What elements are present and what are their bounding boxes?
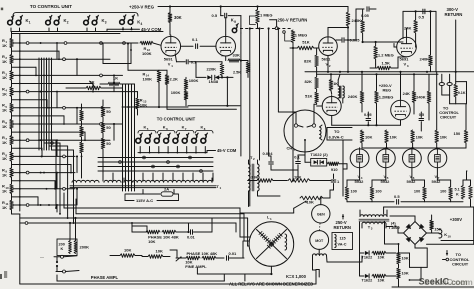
label 200K [80,245,90,250]
svg-text:10K: 10K [378,255,385,259]
label K5 [144,125,149,131]
wire det vert [271,155,305,170]
wire tap R8 [12,164,72,174]
label K7 [182,125,187,131]
resistor 100 c3 [414,187,426,202]
wire stair R5 [76,107,78,124]
relay contact mid 3 [154,133,160,152]
svg-text:200: 200 [59,243,65,247]
svg-text:150: 150 [454,131,461,136]
resistor R9 1K [2,167,13,177]
resistor R4 1K [2,86,13,96]
wire loop2 [76,199,244,231]
wire left border [12,32,20,212]
wire box top rail [12,31,164,33]
wire tap R6 [12,131,86,141]
wire tap R2 [12,66,37,76]
label 250-V RETURN (bot) [334,214,351,230]
resistor 10K grid2 [385,130,397,148]
resistor 50 b2 [80,121,84,137]
svg-text:1K: 1K [2,108,7,113]
svg-text:0.5: 0.5 [212,13,218,18]
transformer T1 core [70,186,216,188]
svg-text:0.01: 0.01 [187,234,196,239]
wire middle verticals [249,27,293,206]
transformer T2 [249,155,281,207]
wire stair R2 [76,58,78,75]
svg-text:45-V COM: 45-V COM [217,148,237,153]
svg-text:5.1: 5.1 [455,188,460,192]
resistor 1K interstage [329,74,338,94]
wire vdrop 163 [162,173,164,181]
svg-text:240K: 240K [416,95,426,100]
resistor 150 [437,104,468,148]
resistor 1.5K [370,57,407,70]
resistor 10K r2 [372,274,400,282]
junction bus1 R10 [46,188,48,190]
wires T1 down [124,178,212,194]
resistor R3 1K [2,70,13,80]
label L1 [267,215,272,221]
svg-text:10K: 10K [416,135,423,140]
tube V3b [391,72,411,120]
svg-text:+250-V REG: +250-V REG [129,5,155,10]
label +250-V REG [129,5,155,10]
resistor 82K b [305,67,319,89]
svg-text:50: 50 [106,125,111,130]
capacitor 0.5 (top) [212,7,241,19]
wire tap R9 [12,180,56,190]
resistor 50 a1 [101,100,111,117]
svg-text:250-V RETURN: 250-V RETURN [278,18,308,23]
wire bus1 line2 [41,58,43,150]
label PHASE AMPL [91,275,119,280]
diode T1622 r2 [360,274,373,282]
wire loop1 [64,193,240,231]
wire grid bus [362,147,437,149]
svg-text:100K: 100K [143,77,153,82]
resistor 100 c2 [370,187,381,202]
resistor 220K [207,62,224,78]
label ALL RELAYS [229,282,313,287]
svg-text:TO CONTROL UNIT: TO CONTROL UNIT [157,117,196,122]
resistor R8 1K [2,151,13,161]
wire R4-R5 [11,96,13,103]
wire R6-R7 [11,129,13,136]
junction chain dots [81,107,104,157]
capacitor 0.005 [336,36,360,73]
wire ch2 bottom [270,266,272,274]
wire K9 down [240,33,242,156]
wire stair R7 [56,139,58,156]
svg-text:T1622: T1622 [362,255,373,259]
svg-text:10K: 10K [307,199,314,204]
wire shield dashes1 [240,28,266,30]
svg-text:15K: 15K [434,227,441,232]
svg-text:CIRCUIT: CIRCUIT [440,115,457,120]
svg-text:200K: 200K [80,245,90,250]
wire vdrop 193 [192,173,194,181]
svg-text:PHASE 10K 48K: PHASE 10K 48K [187,251,218,256]
wire lower bus [384,207,474,241]
wire 115 box [125,194,179,201]
svg-text:0.1: 0.1 [192,37,198,42]
label TO CONTROL UNIT (mid) [157,117,196,122]
svg-text:GEN: GEN [317,213,325,217]
transformer T3 core [359,219,389,221]
svg-text:.com: .com [449,278,468,287]
svg-text:1K: 1K [2,91,7,96]
label TO CONTROL CIRCUIT (right) [439,106,459,120]
svg-text:1K: 1K [2,205,7,210]
box 115 VA-C [332,233,353,250]
svg-text:24K: 24K [404,26,411,31]
label +250-V REG (right) [379,83,392,93]
wire krow y157.5 [98,157,213,159]
svg-text:5K: 5K [90,79,95,84]
switch contact 200k b [56,265,79,273]
resistor 10K bl [110,248,142,258]
wire shield dashes2 [272,28,291,30]
svg-text:1.5K: 1.5K [382,61,391,66]
phase row2 [176,256,244,261]
wire right hook [316,270,319,285]
svg-text:1K: 1K [113,76,118,81]
resistor 5.1K a [455,186,465,200]
resistor R1 1K [2,38,13,48]
wire stair R10 [76,188,78,205]
resistor 10K v1 [397,244,409,268]
generator GEN [312,197,330,223]
wire vdrop 143 [142,173,144,181]
transformer interstage [338,74,344,103]
resistor R5 1K [2,103,13,113]
label 45-V COM (mid) [207,148,237,153]
wire bus2 line5 [134,84,136,191]
wire long top b [20,222,236,232]
tube V7 5932 [428,148,447,169]
potentiometer 1 MEG b [283,30,308,48]
relay contact mid 8 [201,133,207,152]
wire bus1 jog b [44,142,61,215]
diode pair 1N38 [196,75,233,84]
svg-text:100: 100 [414,190,420,194]
junction bus1 R5 [48,107,50,109]
labels phase row1 [148,234,195,243]
wire vdrop 103 [102,173,104,181]
switch contact (153,166.5) [152,165,155,168]
svg-text:240K: 240K [348,94,358,99]
chopper CH2 [249,222,294,267]
wire rect row1 [100,42,132,64]
diode T1622 r1 [360,251,373,259]
bracket K6 [158,131,176,134]
svg-text:10K: 10K [402,256,409,261]
diode bridge [398,222,432,245]
resistor 910 [328,162,347,172]
svg-text:30K: 30K [174,15,182,20]
wire bus2 line4 [131,84,133,191]
wire net row b [188,105,240,107]
svg-text:50: 50 [106,141,111,146]
svg-text:T1622: T1622 [389,225,401,230]
transformer T1 sec a [72,180,121,182]
resistor v3 grid [361,20,365,42]
resistor R14 100K [143,71,161,107]
wire K1-K3 feet [11,28,96,32]
coil ch2 r [285,234,287,250]
tube V3 5691 [397,36,417,68]
wire bus1 line1 [38,58,40,150]
resistor 50 a2 [101,117,111,133]
diodes T1622 (2) [305,152,328,166]
svg-text:0.5: 0.5 [394,194,400,199]
resistor R11 1K [2,200,13,210]
resistor 50 b3 [80,137,84,178]
wire vdrop 173 [172,173,174,181]
tube V2 5691 [319,28,338,68]
wire R3-R4 [11,80,13,87]
wire bus1 line3 [43,58,45,150]
label K8 [201,125,206,131]
svg-text:T1622: T1622 [362,278,373,282]
wire tap R4 [12,99,48,109]
svg-text:9.1K: 9.1K [458,91,466,95]
relay contact mid 5 [173,133,179,152]
wire stair R4 [56,91,58,108]
svg-text:240K: 240K [420,56,430,61]
transformer T3 secondary [362,222,386,228]
wire V1 cathode [175,54,176,62]
resistor 100K c [171,90,188,106]
svg-text:K: K [61,247,64,251]
switch contact (168,162) [167,161,170,164]
wire row R5 [14,106,111,109]
wire 300v return [455,20,457,84]
svg-text:100: 100 [375,190,381,194]
svg-text:CIRCUIT: CIRCUIT [452,262,469,267]
junction bus1 R6 [51,123,53,125]
resistor 240K (V2 plate) [328,7,361,37]
wire K10 right [427,241,474,245]
wire vdrop 213 [212,173,214,181]
wire row R11 [14,204,76,207]
wire vdrop 203 [202,173,204,181]
wire stair R8 [76,155,78,172]
tube V6 5932 [403,148,422,169]
junction bus1 R3 [43,74,45,76]
bracket K5 [138,131,156,134]
wire R5-R6 [11,113,13,120]
capacitor 0.5 (right) [419,112,425,131]
capacitor 0.1 det [294,154,305,180]
svg-text:10K: 10K [148,239,155,244]
svg-text:1 MEG: 1 MEG [295,32,307,37]
junction bus1 R9 [43,172,45,174]
resistor 5.1K b [469,186,473,208]
svg-text:0.01: 0.01 [229,251,238,256]
resistor 50 b1 [80,104,84,121]
relay contact mid 2 [145,133,151,152]
svg-text:1K: 1K [2,140,7,145]
svg-text:51K: 51K [305,94,312,99]
wire bus2 top [123,83,135,85]
svg-text:6.3VA-C: 6.3VA-C [329,134,344,139]
wire mid rail1 [305,71,474,73]
wire v3 grid row [362,41,404,43]
relay contacts (right pair) [439,74,452,95]
switch contact (144,157.5) [143,156,146,159]
wire stair R9 [56,172,58,189]
svg-text:9: 9 [234,20,236,24]
svg-text:220K: 220K [207,67,217,72]
resistor 15K [430,215,442,233]
svg-text:10K: 10K [378,278,385,282]
label T3 [368,224,373,230]
svg-text:RETURN: RETURN [445,12,463,17]
resistor 100K b [184,77,198,90]
resistor 82K a [304,48,318,67]
label TO 6.3VA-C [327,128,352,197]
wire t3 left vert [359,222,361,276]
wire R11 bottom [12,210,20,214]
wire row R2 [14,58,111,61]
label TO CONTROL UNIT (top) [30,4,72,9]
switch contact (178,166.5) [177,165,180,168]
svg-text:1.2 MEG: 1.2 MEG [378,53,394,58]
capacitor 0.5 (v3) [419,9,425,20]
label V7 5932 [432,174,442,184]
wire bl2 [57,274,224,281]
speck c [0,274,2,279]
svg-text:MOT: MOT [315,239,324,243]
wire row R8 [14,155,78,158]
junction bus1 R4 [46,91,48,93]
resistor 220K top wire [221,55,223,57]
wire mid rail2 [317,73,438,75]
svg-text:1K: 1K [2,124,7,129]
capacitor 0.05 (top) [347,7,376,41]
wire row R1 [14,42,58,45]
label 115V A-C [125,198,179,203]
resistor 240K (v3) [420,11,433,71]
wire tap R3 [12,83,94,93]
svg-text:0.5: 0.5 [419,112,425,117]
wire R1-R2 [11,48,13,55]
svg-text:24K: 24K [403,91,410,96]
svg-text:51K: 51K [302,39,309,44]
label TO CONTROL CIRCUIT (br) [443,251,470,267]
svg-text:1K: 1K [2,172,7,177]
svg-text:TO CONTROL UNIT: TO CONTROL UNIT [30,4,72,9]
label +300V [450,217,462,222]
resistor 2.5K [233,61,250,78]
wire krow y166.5 [98,166,213,168]
svg-text:SeekIC: SeekIC [419,276,450,286]
resistor 100 c4 [440,187,452,202]
potentiometer 5K [66,79,123,89]
wire phase links [132,218,243,258]
relay contacts K2 [46,15,69,25]
svg-text:100: 100 [351,190,357,194]
junction bus1 R7 [38,139,40,141]
switch contact (190,157.5) [189,156,192,159]
label T1 [217,184,222,190]
watermark SeekIC.com [419,276,474,287]
resistor 10K grid4 [435,130,447,148]
resistor 24K (right) [403,74,416,114]
wire bus1 jog c [49,146,69,219]
svg-text:10K: 10K [402,271,409,276]
svg-text:1: 1 [29,20,31,24]
wire bus1 line4 [46,58,48,150]
svg-text:100: 100 [440,190,446,194]
relay contacts K3 [84,15,107,25]
junction bus1 R11 [48,204,50,206]
wire ch1 left [278,112,296,124]
wire v2b cathode [331,116,333,125]
svg-text:1N38: 1N38 [209,79,219,84]
resistor 30K [168,7,181,35]
svg-text:10K: 10K [440,135,447,140]
svg-text:RETURN: RETURN [334,225,351,230]
svg-text:0.5: 0.5 [419,15,425,20]
pot fine ampl [176,256,207,269]
svg-text:PHASE AMPL: PHASE AMPL [91,275,119,280]
label 250-V RETURN [270,18,308,30]
resistor 240K (right2) [416,74,431,120]
svg-text:CH: CH [287,146,293,151]
wire t3 right vert [385,221,400,245]
resistor 51K upper [290,39,318,49]
labels phase row2 [187,251,238,256]
speck d [1,8,3,11]
capacitor 0.5 cath [394,194,400,204]
tube V5 5932 [376,148,395,169]
resistor 10K det [288,175,331,183]
svg-text:910: 910 [331,167,338,172]
wire cath drops [347,169,451,187]
resistor 2.2K [159,70,178,109]
switch contact (201,171) [200,170,203,173]
resistor R12 100K [57,41,161,56]
wire R9-R10 [11,177,13,184]
wire R8-R9 [11,161,13,168]
svg-text:115V A-C: 115V A-C [136,198,153,203]
resistor R7 1K [2,135,13,145]
svg-text:REG: REG [383,87,392,92]
svg-text:TO: TO [456,252,461,257]
resistor 1K (mid) [100,76,126,86]
svg-text:1K: 1K [333,82,338,86]
wire bus2 line1 [122,84,124,191]
svg-text:TO: TO [334,129,339,134]
label K=X 1,000 [286,274,307,279]
resistor 51K b [305,89,318,104]
capacitor 0.1 lower [177,59,223,64]
label 45-V COM (top) [141,27,162,32]
wire row R7 [14,139,111,142]
tube V4 5932 [350,148,369,169]
wire v1 net top [127,42,159,70]
wire bridge top [390,216,415,222]
wire v3 left [394,11,407,47]
resistor 39K [248,175,287,183]
phase row1 [131,222,212,234]
svg-text:10: 10 [448,235,452,239]
wire net row a [122,106,188,108]
wire v3 right verts [435,11,437,71]
